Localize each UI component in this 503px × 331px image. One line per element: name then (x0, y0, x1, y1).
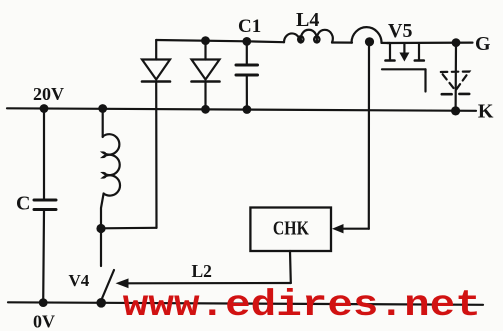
diode dashed (thyristor gate-cathode) (441, 72, 469, 95)
wire top rail right segment to G (387, 41, 473, 44)
wire V4 upper contact (100, 229, 102, 267)
wire hump arc (352, 27, 382, 43)
wire capacitor C top lead (43, 109, 45, 200)
junction dot 20V rail / D2 (201, 105, 210, 114)
wire capacitor C bottom lead (42, 210, 45, 303)
svg-text:V4: V4 (69, 271, 90, 290)
junction dot 0V/C (39, 298, 48, 307)
junction dot 20V/C (40, 104, 49, 113)
wire coil top lead (102, 109, 104, 138)
wire CHK bottom lead (289, 251, 292, 283)
junction dot top rail / D2 (201, 36, 210, 45)
wire node B down to CHK (368, 44, 370, 229)
svg-text:V5: V5 (388, 20, 412, 42)
svg-text:L4: L4 (296, 9, 319, 31)
capacitor C (16, 193, 56, 215)
junction dot 20V rail / C1 (243, 105, 252, 114)
wire top rail left segment (156, 40, 284, 42)
svg-text:0V: 0V (33, 312, 55, 331)
diode D2 (192, 41, 220, 108)
junction dot node G (452, 38, 461, 47)
svg-text:C: C (16, 193, 30, 215)
wire hump to V5 (382, 42, 391, 44)
wire node A to diode V1 branch (101, 227, 157, 230)
arrowhead L2 toward V4 (116, 278, 129, 288)
inductor L2 label (192, 261, 212, 281)
switch V4 (69, 270, 115, 302)
svg-text:L2: L2 (192, 261, 212, 281)
transistor V5 (MOSFET) (382, 20, 426, 92)
arrowhead into CHK (332, 224, 344, 233)
wire L2 horizontal (127, 282, 291, 284)
svg-text:CHK: CHK (273, 218, 309, 240)
junction dot top rail / C1 (242, 37, 251, 46)
box CHK U1 (250, 208, 331, 252)
svg-text:K: K (478, 101, 494, 123)
wire CHK input horizontal (341, 228, 369, 230)
node 20V label (33, 84, 64, 104)
junction dot node A (coil bottom) (96, 224, 105, 233)
svg-text:www.edires.net: www.edires.net (123, 285, 481, 327)
node G label (475, 33, 491, 55)
wire 20V/K rail (7, 108, 476, 111)
wire diode branch vertical (155, 82, 158, 228)
junction dot 0V/V4 (96, 298, 106, 308)
coil (relay winding) (103, 134, 120, 195)
wire G to dashed diode (455, 43, 458, 111)
node K label (478, 101, 494, 123)
node 0V label (33, 312, 55, 331)
junction dot hump node B (365, 37, 374, 46)
diode D1 (142, 40, 170, 82)
svg-text:G: G (475, 33, 491, 55)
wire 0V rail (8, 302, 483, 305)
svg-text:C1: C1 (238, 16, 261, 37)
wire coil bottom lead (101, 194, 104, 229)
capacitor C1 (236, 16, 261, 110)
inductor L4 (284, 9, 333, 43)
watermark www.edires.net (123, 285, 481, 327)
junction dot 20V/coil (98, 104, 107, 113)
svg-text:20V: 20V (33, 84, 64, 104)
junction dot node K (451, 106, 460, 115)
wire L4 to hump (332, 41, 352, 43)
